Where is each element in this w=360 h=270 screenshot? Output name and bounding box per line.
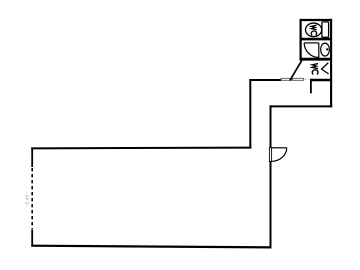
- svg-text:~5,45~: ~5,45~: [25, 192, 30, 208]
